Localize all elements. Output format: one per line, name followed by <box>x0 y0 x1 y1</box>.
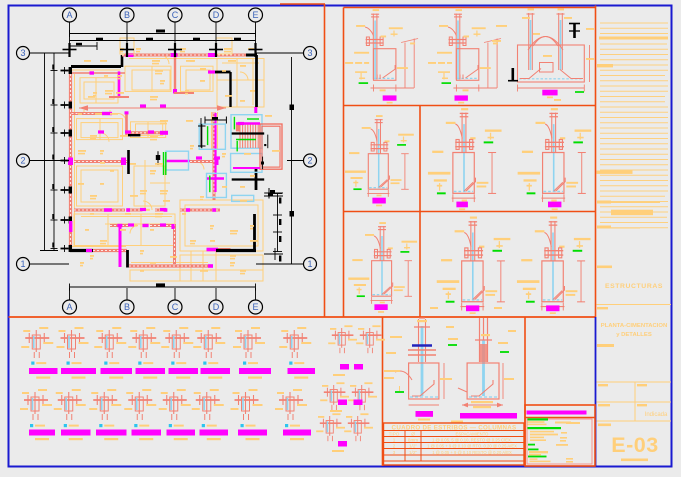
info boxes grid <box>597 381 672 383</box>
svg-text:8mm: 8mm <box>408 437 418 442</box>
scale bar r2-5 (magenta) <box>167 430 196 436</box>
wall y97 <box>109 96 129 98</box>
grid bubble 1 right <box>304 258 317 271</box>
table CUADRO DE ESTRIBOS - COLUMNAS <box>384 423 525 465</box>
svg-text:1 @ 0.05, 5 @ 0.10, RESTO @ 0.: 1 @ 0.05, 5 @ 0.10, RESTO @ 0.25 C/EX. <box>432 437 512 442</box>
leader line C top <box>174 22 176 44</box>
scale bar r2-2 (magenta) <box>61 430 91 436</box>
detail grid row divider 1 (orange) <box>344 105 596 107</box>
scale bar r2-1 (magenta) <box>29 430 55 436</box>
scale bar detail 9 <box>546 305 559 311</box>
elevator magenta band <box>166 160 190 163</box>
detail grid row divider 2 (orange) <box>344 211 596 213</box>
cyan box lower-left <box>207 173 227 197</box>
svg-text:1 @ 0.05 + 9 @ 0.10 RESTO @ 0.: 1 @ 0.05 + 9 @ 0.10 RESTO @ 0.20 A/EX <box>432 450 512 455</box>
corridor wall y161.5 right <box>190 160 215 163</box>
grid bubble C top <box>168 8 182 22</box>
wall connector mark <box>61 248 69 250</box>
svg-text:ESPACAMIENTO: ESPACAMIENTO <box>456 431 490 436</box>
left dimension lines <box>44 53 46 251</box>
svg-text:E: E <box>252 302 258 312</box>
yellow wall parallels and door arcs <box>72 55 253 263</box>
leader line D top <box>215 22 217 44</box>
plan panel top edge (orange) <box>280 3 325 5</box>
svg-text:2: 2 <box>393 443 396 448</box>
scale bar r2-7 (magenta) <box>238 430 267 436</box>
svg-text:1/2": 1/2" <box>409 450 417 455</box>
leader line 2 right <box>287 160 304 162</box>
detail labels <box>384 307 516 380</box>
svg-text:1: 1 <box>393 437 396 442</box>
wall connector mark <box>61 70 69 72</box>
wall along C x175 upper <box>174 57 176 92</box>
small magenta wall dashes <box>86 104 244 252</box>
svg-text:B: B <box>124 10 130 20</box>
footing detail 8 <box>437 217 511 311</box>
bottom-left panel right border (orange) <box>382 317 384 466</box>
leader line D bottom <box>215 288 217 300</box>
leader line 3 left <box>30 52 70 54</box>
svg-text:1: 1 <box>20 259 25 269</box>
staircase inner red rect <box>262 126 280 167</box>
title block left border upper (orange) <box>595 6 597 318</box>
elevator cyan box x166 <box>166 151 189 170</box>
scale bar detail A <box>416 411 434 417</box>
grid bubble B top <box>120 8 134 22</box>
grid bubble 2 right <box>304 154 317 167</box>
label PROYECTO <box>597 266 612 269</box>
wall connector mark <box>61 189 69 191</box>
small detail r2-6 <box>192 389 224 420</box>
svg-text:B: B <box>124 302 130 312</box>
wall connector mark <box>61 132 69 134</box>
title block left border lower (blue) <box>595 317 597 466</box>
magenta band lower <box>207 177 224 180</box>
scale bar r1-3 (magenta) <box>101 368 133 374</box>
long scale bar (magenta) <box>460 413 517 419</box>
bottom dimension line <box>70 286 256 288</box>
scale bar detail 4 <box>372 198 385 204</box>
left exterior wall <box>69 70 72 250</box>
wall y72 near C-D <box>208 70 215 73</box>
corridor wall y210 <box>74 209 125 212</box>
label LAM No <box>598 424 611 427</box>
grid bubble A bottom <box>63 300 77 314</box>
column dim detail left of core <box>200 118 202 148</box>
label ESC <box>637 404 647 406</box>
wall y132.8 <box>128 131 168 134</box>
elevator black dim bracket <box>157 151 159 165</box>
svg-text:y DETALLES: y DETALLES <box>616 332 652 338</box>
notes magenta header bar <box>527 411 587 415</box>
leader line E bottom <box>255 288 257 300</box>
wall x173 lower (magenta+salmon) <box>173 224 176 264</box>
scale bar detail 3 <box>542 90 557 96</box>
title block notes: yellow text lines <box>600 23 668 228</box>
detail grid top border (orange) <box>344 7 596 9</box>
grid bubble E top <box>249 8 263 22</box>
small detail r2-1 <box>20 389 52 420</box>
small detail r1-3 <box>94 327 126 358</box>
inner wall line y73 <box>72 72 125 74</box>
top wall B-E <box>122 54 256 57</box>
magenta column markers on left wall <box>68 158 73 166</box>
leader line B bottom <box>126 288 128 300</box>
svg-text:ESTRUCTURAS: ESTRUCTURAS <box>605 283 663 290</box>
leader line C bottom <box>174 288 176 300</box>
right dimension line inner <box>277 194 279 252</box>
scale bar r1-1 (magenta) <box>29 368 58 374</box>
grid bubble 2 left <box>17 154 30 167</box>
scale bar detail 7 <box>374 304 387 310</box>
svg-text:TIPO: TIPO <box>389 431 400 436</box>
svg-text:Ø: Ø <box>411 431 415 436</box>
svg-text:PLANTA-CIMENTACION: PLANTA-CIMENTACION <box>601 323 668 329</box>
small detail r1-1 <box>21 327 53 358</box>
tick marks lower right <box>264 195 283 197</box>
svg-text:1: 1 <box>307 259 312 269</box>
notes green headings and yellow text <box>528 418 581 462</box>
small detail r1-2 <box>57 327 89 358</box>
notes heading bold line <box>599 37 668 40</box>
plan panel right border (orange) <box>324 4 326 317</box>
leader line A bottom <box>69 288 71 300</box>
grid bubble D bottom <box>209 300 223 314</box>
wall column B inner (magenta) <box>118 71 121 96</box>
black bolt symbol lower-left <box>511 68 514 81</box>
scale bar r1-5 (magenta) <box>169 368 199 374</box>
scale bar r2-8 (magenta) <box>283 430 311 436</box>
notes inner border <box>527 419 592 464</box>
interior partition lines (yellow) <box>81 58 264 281</box>
scale bar detail 1 <box>383 95 397 100</box>
scale bar detail 6 <box>548 202 561 208</box>
wall x126.5 <box>125 112 128 136</box>
footing detail 6 <box>518 108 592 202</box>
grid bubble 3 right <box>304 47 317 60</box>
scale bar r1-6 (magenta) <box>201 368 231 374</box>
scale bar detail 8 <box>466 305 479 311</box>
bottom wall D-E (black) <box>216 249 256 252</box>
bottom wall B-D <box>129 264 208 267</box>
top wall A-B (black) <box>71 65 121 68</box>
grid bubble 1 left <box>17 258 30 271</box>
label PLANO <box>597 307 608 309</box>
scale bar r1-8 (magenta) <box>288 368 316 374</box>
small detail r2-7 <box>231 389 263 420</box>
svg-text:E-03: E-03 <box>611 433 658 457</box>
stair treads <box>240 125 258 149</box>
svg-text:D: D <box>213 10 220 20</box>
svg-text:A: A <box>66 10 72 20</box>
grid bubble 3 left <box>17 47 30 60</box>
wall at D bottom <box>207 248 219 252</box>
small detail r1-8 <box>279 327 311 358</box>
wall tick <box>126 43 128 57</box>
yellow parapet at D <box>216 38 232 54</box>
bottom-middle panel right border (orange) <box>524 317 526 466</box>
footing detail 5 <box>428 108 502 202</box>
small detail r2-5 <box>159 389 191 420</box>
bottom wall A-B <box>70 249 93 252</box>
cyan box bottom <box>232 195 254 201</box>
label REV <box>637 384 647 386</box>
right exterior wall upper (black) <box>255 55 258 107</box>
svg-text:3: 3 <box>307 48 312 58</box>
svg-text:3: 3 <box>20 48 25 58</box>
scale bar r2-6 (magenta) <box>200 430 229 436</box>
svg-text:3: 3 <box>393 450 396 455</box>
step wall at B bottom (black) <box>126 250 129 268</box>
grid bubble C bottom <box>168 300 182 314</box>
footing detail 7 <box>348 222 417 304</box>
notes panel frame <box>525 405 595 466</box>
stair core cyan box mid <box>231 154 262 173</box>
step wall at B top <box>121 55 124 67</box>
small detail r2-8 <box>275 389 307 420</box>
core black dimension marks <box>198 117 283 199</box>
svg-text:C: C <box>172 302 179 312</box>
leader line B top <box>126 22 128 44</box>
scale bar r1-7 (magenta) <box>239 368 271 374</box>
footing detail 4 <box>345 115 414 197</box>
big footing detail B <box>458 318 503 399</box>
ancho zapata dim <box>462 404 503 406</box>
archivo text <box>621 459 648 462</box>
small dim offshoot at A <box>70 45 98 47</box>
svg-text:1/2": 1/2" <box>409 443 417 448</box>
grid bubble B bottom <box>120 300 134 314</box>
svg-text:2: 2 <box>307 156 312 166</box>
yellow parapet at B <box>120 38 134 54</box>
svg-text:1 @ 0.05 + 9 @ 0.10 @ RTO. 0.2: 1 @ 0.05 + 9 @ 0.10 @ RTO. 0.20 @ 0.25 A… <box>427 443 517 448</box>
staircase outer red rect <box>260 124 282 169</box>
wall tick <box>254 43 256 57</box>
elevator cyan box left <box>199 124 225 149</box>
corridor wall y161.5 left <box>74 160 127 163</box>
landing magenta band <box>236 122 260 125</box>
wall x230.5 black <box>229 72 231 107</box>
mini detail column 9 top <box>316 325 385 441</box>
elevator green verticals <box>163 152 165 175</box>
scale bar detail 2 <box>455 95 468 100</box>
footing detail 1 <box>345 9 418 91</box>
scale bar r1-2 (magenta) <box>61 368 96 374</box>
divider line <box>597 304 672 306</box>
scale bar r2-3 (magenta) <box>96 430 127 436</box>
section cut line with arrows y108 <box>79 107 226 109</box>
stair core cyan box upper <box>231 115 262 149</box>
black wall x128.5 <box>127 150 130 174</box>
leader line 1 right <box>256 263 304 265</box>
detail grid column divider (orange) <box>419 106 421 318</box>
yellow door arrows corridor <box>144 209 150 211</box>
main horizontal divider (orange) <box>9 316 596 318</box>
small detail r2-4 <box>124 389 156 420</box>
room outlines (yellow) <box>74 59 264 282</box>
wall y93 <box>174 92 194 94</box>
big footing detail A <box>395 319 444 405</box>
leader line A top <box>69 22 71 44</box>
footing detail 9 <box>517 217 591 311</box>
small detail r1-6 <box>193 327 225 358</box>
leader line 2 left <box>30 160 70 162</box>
small detail r2-2 <box>54 389 86 420</box>
footing detail 2 <box>428 9 501 91</box>
svg-text:C: C <box>172 10 179 20</box>
grid bubble E bottom <box>249 300 263 314</box>
notes sub-heading bars <box>597 171 633 174</box>
black bolt symbol upper <box>573 23 576 38</box>
right grid extension line <box>291 57 293 264</box>
wall tick <box>174 43 176 57</box>
wall x120 magenta lower <box>119 227 122 268</box>
right exterior wall mid (black) <box>255 168 258 191</box>
wall x214 salmon <box>213 112 216 200</box>
scale bar r1-4 (magenta) <box>136 368 166 374</box>
magenta band mid <box>233 167 260 169</box>
label DETALLE <box>597 344 614 347</box>
scattered text labels (yellow) <box>78 48 280 274</box>
small detail r1-4 <box>128 327 160 358</box>
small detail r1-7 <box>233 327 265 358</box>
scale bar r2-4 (magenta) <box>132 430 162 436</box>
leader line 3 right <box>256 52 304 54</box>
footing detail 3 (double column) <box>492 9 594 101</box>
right exterior wall lower (black) <box>253 214 256 251</box>
top dimension line 2 <box>70 40 256 42</box>
scale bar detail 5 <box>456 202 468 208</box>
label FECHA <box>598 404 610 406</box>
wall tick <box>68 43 70 57</box>
svg-text:Indicada: Indicada <box>645 412 668 418</box>
small detail r1-5 <box>161 327 193 358</box>
detail grid left border (orange) <box>343 8 345 318</box>
wall connector mark <box>61 104 69 106</box>
leader line E top <box>255 22 257 44</box>
green rebar marks <box>208 117 259 192</box>
svg-text:D: D <box>213 302 220 312</box>
leader line 1 left <box>30 263 70 265</box>
grid bubble D top <box>209 8 223 22</box>
grid bubble A top <box>63 8 77 22</box>
svg-text:E: E <box>252 10 258 20</box>
wall connector mark <box>61 219 69 221</box>
wall connector mark <box>61 160 69 162</box>
small detail r2-3 <box>89 389 121 420</box>
svg-text:A: A <box>66 302 72 312</box>
top dimension line 1 <box>70 33 256 35</box>
wall tick <box>215 43 217 57</box>
svg-text:2: 2 <box>20 156 25 166</box>
label DIB <box>598 384 608 386</box>
wall y225.5 segments <box>110 224 129 227</box>
wall y113.5 <box>72 112 103 115</box>
